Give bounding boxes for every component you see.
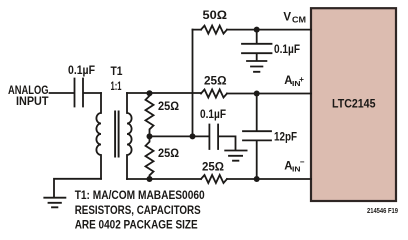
- node junction VCM bypass: [254, 27, 260, 33]
- node junction chain bottom: [147, 176, 153, 182]
- node junction AIN+ 12pF: [254, 91, 260, 97]
- wire C3 to ground: [219, 136, 236, 149]
- svg-text:RESISTORS, CAPACITORS: RESISTORS, CAPACITORS: [75, 205, 201, 217]
- svg-text:0.1µF: 0.1µF: [200, 109, 226, 121]
- wire 12pF to AIN- node: [256, 141, 258, 179]
- svg-text:0.1µF: 0.1µF: [68, 65, 95, 77]
- svg-text:+: +: [299, 75, 304, 84]
- svg-text:214546 F19: 214546 F19: [367, 208, 398, 215]
- svg-text:ARE 0402 PACKAGE SIZE: ARE 0402 PACKAGE SIZE: [75, 220, 198, 232]
- wire center tap to C3: [150, 135, 209, 137]
- resistor R4 25ohm lower termination: [146, 136, 154, 179]
- resistor R3 25ohm upper termination: [146, 93, 154, 136]
- ground at VCM capacitor: [247, 61, 266, 72]
- svg-text:12pF: 12pF: [274, 132, 297, 144]
- wire AIN+ node to 12pF: [256, 94, 258, 131]
- capacitor C3 0.1uF center tap: [209, 125, 218, 150]
- svg-text:50Ω: 50Ω: [203, 10, 228, 22]
- svg-text:1:1: 1:1: [111, 81, 122, 93]
- svg-text:0.1µF: 0.1µF: [274, 44, 300, 56]
- svg-text:INPUT: INPUT: [16, 96, 49, 108]
- capacitor C4 12pF: [243, 131, 271, 140]
- capacitor C2 0.1uF at VCM: [242, 44, 272, 60]
- wire primary bottom to ground: [54, 179, 101, 197]
- svg-text:25Ω: 25Ω: [158, 148, 179, 160]
- svg-text:25Ω: 25Ω: [158, 101, 179, 113]
- node junction AIN- 12pF: [254, 176, 260, 182]
- resistor R2 25ohm AIN+: [201, 90, 227, 98]
- wire secondary top segment: [200, 92, 202, 94]
- svg-text:25Ω: 25Ω: [202, 162, 224, 174]
- svg-text:−: −: [300, 157, 305, 166]
- resistor R1 50ohm: [201, 26, 227, 34]
- chip U1 LTC2145: [311, 8, 396, 201]
- transformer T1 core: [115, 112, 119, 157]
- svg-text:V: V: [283, 12, 291, 24]
- node junction center tap: [147, 133, 153, 139]
- transformer T1 secondary winding: [127, 93, 132, 179]
- wire VCM node to capacitor: [256, 30, 258, 43]
- svg-text:T1: MA/COM MABAES0060: T1: MA/COM MABAES0060: [75, 190, 205, 202]
- svg-text:LTC2145: LTC2145: [332, 98, 376, 110]
- wire secondary top to AIN+: [127, 92, 311, 95]
- ground at C3: [225, 151, 246, 161]
- svg-text:25Ω: 25Ω: [204, 76, 227, 88]
- wire VCM from chip to bus: [193, 29, 312, 31]
- node junction secondary top: [147, 90, 153, 96]
- wire C1 to transformer primary: [84, 92, 101, 94]
- wire ANALOG INPUT to C1: [50, 92, 74, 94]
- transformer T1 primary winding: [96, 93, 101, 179]
- svg-text:CM: CM: [292, 16, 306, 25]
- capacitor C1 0.1uF input: [75, 79, 84, 107]
- ground at transformer primary: [44, 198, 65, 208]
- wire bus VCM to center tap: [192, 30, 194, 137]
- node junction bus center tap: [190, 133, 196, 139]
- svg-text:T1: T1: [111, 66, 124, 78]
- wire secondary bottom to AIN-: [127, 178, 311, 180]
- resistor R5 25ohm AIN-: [201, 175, 227, 183]
